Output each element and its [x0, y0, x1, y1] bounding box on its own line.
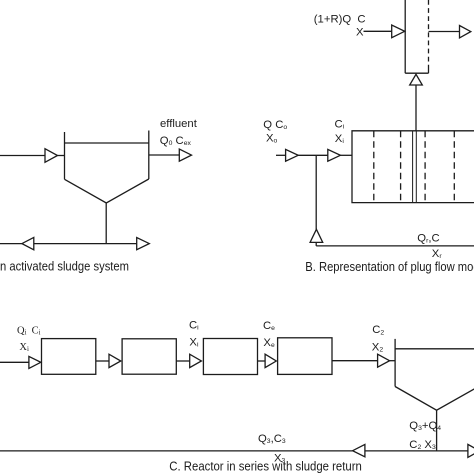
svg-text:Xi: Xi [189, 337, 199, 349]
svg-text:Ce: Ce [263, 320, 275, 332]
svg-text:Q3+Q4: Q3+Q4 [409, 420, 441, 432]
svg-text:n activated sludge system: n activated sludge system [0, 259, 129, 274]
svg-text:Xi: Xi [335, 133, 345, 145]
svg-text:Ci: Ci [335, 118, 345, 130]
svg-text:Ci: Ci [189, 319, 199, 331]
svg-text:Xo: Xo [266, 132, 278, 144]
svg-text:Qr,C: Qr,C [417, 233, 439, 245]
svg-text:Ci: Ci [32, 325, 41, 336]
svg-text:Q Co: Q Co [263, 119, 287, 131]
svg-text:X2: X2 [372, 341, 384, 353]
svg-text:C. Reactor in series with slud: C. Reactor in series with sludge return [169, 459, 361, 474]
svg-text:Q0 Cex: Q0 Cex [160, 135, 192, 147]
svg-text:C2 X3: C2 X3 [409, 439, 436, 451]
svg-text:B. Representation of plug flow: B. Representation of plug flow model [305, 259, 474, 274]
svg-text:Qi: Qi [17, 325, 27, 336]
svg-text:effluent: effluent [160, 118, 198, 130]
svg-text:Q3,C3: Q3,C3 [258, 433, 286, 445]
svg-text:Xe: Xe [263, 337, 275, 349]
svg-text:C2: C2 [372, 324, 384, 336]
svg-text:(1+R)Q C: (1+R)Q C [314, 14, 366, 26]
svg-text:X: X [356, 26, 364, 38]
svg-text:Xi: Xi [19, 342, 29, 353]
